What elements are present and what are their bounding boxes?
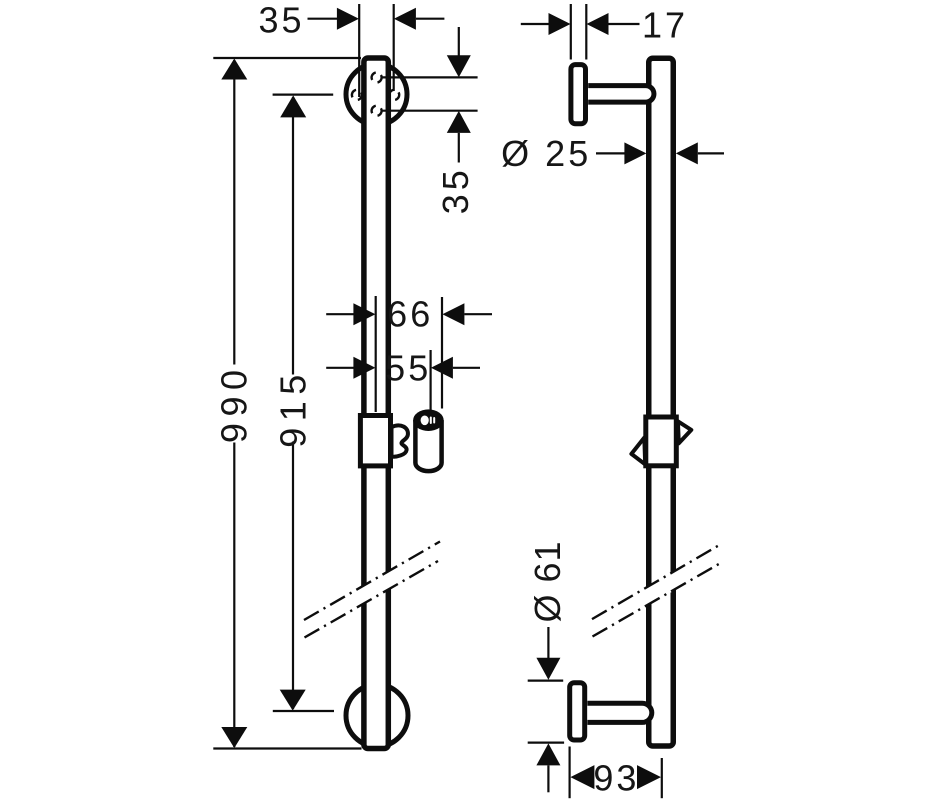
svg-text:Ø 25: Ø 25 [501, 133, 591, 174]
svg-text:990: 990 [214, 364, 255, 444]
svg-text:35: 35 [258, 0, 304, 41]
svg-text:Ø 61: Ø 61 [527, 540, 568, 622]
svg-text:55: 55 [385, 347, 431, 388]
svg-text:17: 17 [642, 5, 688, 46]
svg-text:66: 66 [387, 294, 433, 335]
svg-text:35: 35 [435, 166, 476, 214]
svg-text:93: 93 [593, 757, 639, 798]
svg-text:915: 915 [272, 368, 313, 448]
